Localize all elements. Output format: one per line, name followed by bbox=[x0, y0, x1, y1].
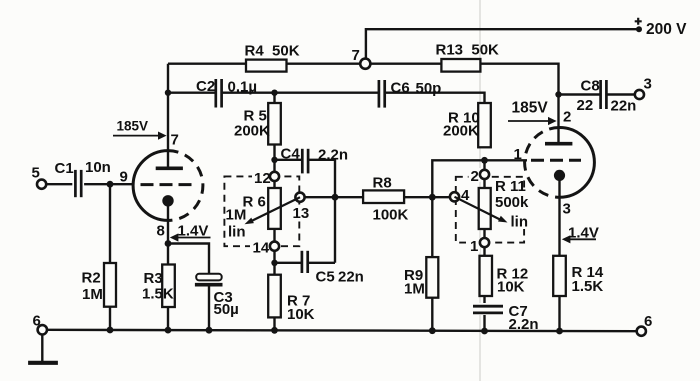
svg-text:12: 12 bbox=[254, 170, 271, 187]
svg-text:4: 4 bbox=[461, 187, 470, 204]
svg-text:C5: C5 bbox=[316, 269, 335, 286]
svg-text:1M: 1M bbox=[226, 207, 247, 224]
svg-text:10n: 10n bbox=[85, 159, 111, 176]
svg-text:C4: C4 bbox=[281, 146, 301, 163]
svg-text:200 V: 200 V bbox=[646, 21, 687, 38]
svg-text:0.1µ: 0.1µ bbox=[228, 79, 258, 96]
svg-text:C2: C2 bbox=[196, 78, 215, 95]
svg-text:3: 3 bbox=[563, 201, 571, 218]
svg-text:7: 7 bbox=[171, 132, 179, 149]
svg-text:50µ: 50µ bbox=[214, 301, 239, 318]
svg-text:lin: lin bbox=[228, 224, 246, 241]
svg-text:2.2n: 2.2n bbox=[509, 316, 539, 333]
svg-text:50p: 50p bbox=[416, 80, 442, 97]
svg-text:100K: 100K bbox=[373, 207, 409, 224]
svg-text:1M: 1M bbox=[82, 286, 103, 303]
svg-text:22n: 22n bbox=[338, 269, 364, 286]
svg-text:22: 22 bbox=[577, 97, 594, 114]
svg-text:1M: 1M bbox=[404, 281, 425, 298]
svg-text:R3: R3 bbox=[144, 270, 163, 287]
svg-text:3: 3 bbox=[644, 76, 652, 93]
svg-text:2.2n: 2.2n bbox=[318, 147, 348, 164]
svg-text:R 11: R 11 bbox=[495, 178, 526, 195]
svg-text:7: 7 bbox=[352, 47, 360, 64]
svg-text:500k: 500k bbox=[495, 194, 529, 211]
svg-text:8: 8 bbox=[157, 223, 165, 240]
svg-text:lin: lin bbox=[511, 214, 529, 231]
svg-text:14: 14 bbox=[253, 240, 270, 257]
svg-text:R13 50K: R13 50K bbox=[436, 42, 500, 59]
svg-text:R2: R2 bbox=[82, 270, 101, 287]
svg-text:2: 2 bbox=[471, 168, 479, 185]
svg-text:1: 1 bbox=[514, 146, 522, 163]
svg-text:6: 6 bbox=[33, 313, 41, 330]
svg-text:1.4V: 1.4V bbox=[178, 223, 209, 240]
svg-text:200K: 200K bbox=[443, 123, 479, 140]
svg-text:200K: 200K bbox=[234, 123, 270, 140]
svg-text:C8: C8 bbox=[581, 78, 600, 95]
svg-text:5: 5 bbox=[32, 165, 40, 182]
svg-text:C6: C6 bbox=[391, 80, 410, 97]
svg-text:C1: C1 bbox=[55, 160, 74, 177]
svg-text:1: 1 bbox=[470, 238, 478, 255]
svg-text:9: 9 bbox=[120, 169, 128, 186]
svg-text:R8: R8 bbox=[373, 175, 392, 192]
svg-text:10K: 10K bbox=[497, 279, 525, 296]
svg-text:1.5K: 1.5K bbox=[142, 286, 174, 303]
svg-text:185V: 185V bbox=[117, 119, 149, 134]
svg-text:1.4V: 1.4V bbox=[568, 225, 599, 242]
svg-text:185V: 185V bbox=[512, 100, 549, 117]
svg-text:13: 13 bbox=[293, 205, 310, 222]
svg-text:1.5K: 1.5K bbox=[572, 278, 604, 295]
svg-text:22n: 22n bbox=[611, 98, 637, 115]
svg-text:6: 6 bbox=[644, 313, 652, 330]
svg-text:R4 50K: R4 50K bbox=[245, 43, 300, 60]
svg-text:2: 2 bbox=[563, 109, 571, 126]
svg-text:10K: 10K bbox=[287, 306, 315, 323]
